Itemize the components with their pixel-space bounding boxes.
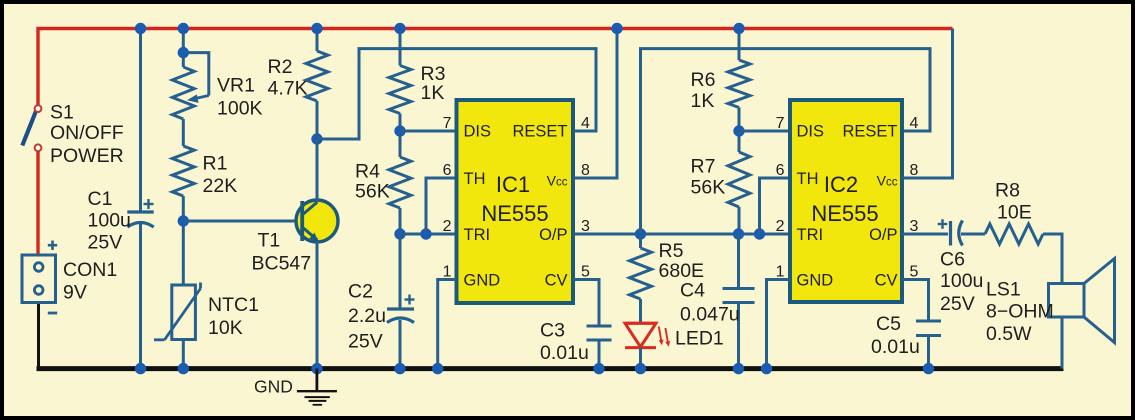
label IC2 pin OP: [869, 226, 897, 244]
svg-text:25V: 25V: [940, 293, 975, 315]
svg-text:R1: R1: [203, 153, 228, 175]
label IC1 pin CV: [545, 272, 568, 290]
resistor R7: [728, 152, 750, 207]
wire R7 bottom: [738, 207, 741, 234]
svg-text:IC2: IC2: [824, 172, 858, 197]
svg-text:8: 8: [581, 162, 590, 179]
svg-text:1: 1: [776, 264, 785, 281]
svg-text:9V: 9V: [63, 282, 87, 304]
label C4: [680, 280, 740, 326]
capacitor C5: [916, 321, 941, 336]
svg-text:6: 6: [443, 162, 452, 179]
junction VR1 wiper: [178, 47, 189, 58]
pin number 4 IC1: [581, 115, 590, 132]
resistor R2: [306, 51, 328, 101]
junction TRI1 node: [394, 228, 405, 239]
svg-text:7: 7: [443, 115, 452, 132]
op-amp U1 IC1 NE555 body: [457, 100, 574, 303]
svg-text:1K: 1K: [691, 90, 715, 112]
pin number 2 IC2: [776, 218, 785, 235]
junction DIS1 node: [394, 125, 405, 136]
switch S1: [22, 105, 41, 151]
wire C4 top: [737, 234, 740, 289]
svg-text:0.01u: 0.01u: [540, 342, 589, 364]
svg-text:RESET: RESET: [842, 123, 897, 141]
svg-text:BC547: BC547: [252, 253, 312, 275]
svg-text:R8: R8: [995, 180, 1020, 202]
wire CV1: [573, 280, 599, 327]
svg-text:T1: T1: [258, 230, 281, 252]
CON1 minus mark: [48, 312, 57, 315]
svg-text:NTC1: NTC1: [208, 294, 259, 316]
svg-text:1: 1: [443, 264, 452, 281]
svg-text:R2: R2: [268, 56, 293, 78]
pin number 7 IC2: [776, 115, 785, 132]
wire R3-R4: [399, 114, 402, 158]
label IC2 pin TH: [797, 170, 819, 188]
label IC2 pin CV: [875, 272, 898, 290]
svg-text:8−OHM: 8−OHM: [986, 301, 1054, 323]
wire VR1-R1: [182, 119, 185, 146]
pin number 8 IC1: [581, 162, 590, 179]
wire NTC1 bottom: [182, 340, 185, 369]
label R3: [421, 63, 446, 104]
svg-text:5: 5: [910, 264, 919, 281]
svg-text:25V: 25V: [348, 331, 383, 353]
label IC1 pin TRI: [464, 226, 491, 244]
svg-text:C1: C1: [88, 188, 113, 210]
svg-text:C4: C4: [680, 280, 705, 302]
label IC1 pin RESET: [512, 123, 567, 141]
wire speaker-ground: [1061, 317, 1064, 369]
label C1: [88, 188, 131, 254]
wire GND1 pin: [438, 280, 456, 369]
label R8: [995, 180, 1032, 224]
svg-text:NE555: NE555: [811, 201, 878, 226]
svg-text:3: 3: [581, 218, 590, 235]
junction GND1 ground: [432, 363, 443, 374]
wire LED1 bottom: [639, 348, 642, 369]
capacitor C2: [387, 295, 415, 323]
label IC1 pin GND: [464, 272, 501, 290]
svg-text:56K: 56K: [355, 181, 390, 203]
svg-text:0.01u: 0.01u: [871, 336, 920, 358]
svg-text:100u: 100u: [940, 270, 983, 292]
ground symbol: [297, 369, 337, 405]
label IC1 name: [481, 172, 548, 226]
wire GND2 pin: [767, 280, 791, 369]
label IC2 pin DIS: [797, 123, 825, 141]
svg-text:ON/OFF: ON/OFF: [50, 122, 124, 144]
junction VR1 rail: [178, 23, 189, 34]
label T1: [252, 230, 312, 275]
svg-text:1K: 1K: [421, 82, 445, 104]
wire RESET2 link: [641, 49, 931, 234]
label R1: [203, 153, 238, 198]
svg-text:CV: CV: [875, 272, 898, 290]
wire R8-speaker: [1043, 234, 1062, 284]
pin number 1 IC1: [443, 264, 452, 281]
svg-text:5: 5: [581, 264, 590, 281]
svg-text:TH: TH: [464, 170, 486, 188]
wire C4 bottom: [737, 303, 740, 369]
wire R6-R7: [738, 108, 741, 153]
label IC2 pin RESET: [842, 123, 897, 141]
svg-text:R4: R4: [355, 161, 380, 183]
svg-text:25V: 25V: [88, 232, 123, 254]
capacitor C6: [938, 219, 963, 245]
thermistor NTC1: [154, 283, 201, 340]
svg-text:IC1: IC1: [496, 172, 530, 197]
wire TRI1: [400, 233, 456, 236]
svg-text:C6: C6: [940, 249, 965, 271]
wire OP1 to TRI2: [573, 233, 790, 236]
wire Vcc2: [902, 29, 953, 179]
junction emitter ground: [311, 363, 322, 374]
wire DIS1: [400, 130, 456, 133]
junction collector node: [311, 133, 322, 144]
pin number 2 IC1: [443, 218, 452, 235]
wire battery positive (red): [36, 151, 39, 256]
capacitor C4: [723, 289, 755, 303]
junction C3 ground: [593, 363, 604, 374]
svg-text:VR1: VR1: [217, 75, 255, 97]
label C5: [871, 313, 920, 358]
label R5: [659, 240, 705, 282]
svg-text:S1: S1: [50, 102, 74, 124]
label IC1 pin TH: [464, 170, 486, 188]
svg-text:LS1: LS1: [986, 279, 1021, 301]
wire R6 top: [738, 29, 741, 61]
label C3: [540, 320, 589, 365]
pin number 1 IC2: [776, 264, 785, 281]
resistor R4: [389, 157, 411, 208]
junction R3 rail: [394, 23, 405, 34]
label NTC1: [208, 294, 259, 339]
junction GND2 ground: [761, 363, 772, 374]
svg-text:2.2u: 2.2u: [348, 305, 386, 327]
pin number 3 IC2: [910, 218, 919, 235]
junction C4 node: [733, 228, 744, 239]
svg-text:O/P: O/P: [539, 226, 567, 244]
junction DIS2 node: [733, 125, 744, 136]
svg-text:TRI: TRI: [464, 226, 491, 244]
svg-text:4: 4: [910, 115, 919, 132]
label C6: [940, 249, 983, 316]
wire RESET1 link: [317, 49, 596, 139]
wire C2 bottom: [399, 320, 402, 369]
svg-text:LED1: LED1: [675, 328, 724, 350]
wire VR1 top: [182, 29, 185, 68]
svg-text:3: 3: [910, 218, 919, 235]
wire C2 top: [399, 234, 402, 309]
potentiometer VR1: [172, 53, 209, 119]
wire C6-R8: [961, 233, 985, 236]
wire C5 bottom: [927, 336, 930, 369]
junction C1 bottom: [135, 363, 146, 374]
speaker LS1: [1049, 259, 1115, 343]
wire emitter: [316, 241, 319, 369]
label IC2 pin Vcc: [877, 172, 898, 188]
wire collector: [316, 139, 319, 201]
wire DIS2: [739, 130, 790, 133]
svg-text:2: 2: [443, 218, 452, 235]
wire R4-TRI node: [399, 208, 402, 234]
svg-text:CON1: CON1: [63, 259, 117, 281]
resistor R5: [630, 234, 652, 323]
label IC1 pin DIS: [464, 123, 492, 141]
svg-text:2: 2: [776, 218, 785, 235]
svg-text:100u: 100u: [88, 210, 131, 232]
label IC2 pin GND: [797, 272, 834, 290]
label LS1: [986, 279, 1054, 346]
connector CON1: [22, 255, 56, 303]
wire Vcc1: [573, 29, 617, 179]
wire R2-collector node: [316, 101, 319, 139]
junction C2 ground: [394, 363, 405, 374]
svg-text:RESET: RESET: [512, 123, 567, 141]
wire base: [183, 220, 301, 223]
transistor T1: [296, 200, 338, 242]
svg-text:R7: R7: [691, 156, 716, 178]
svg-text:R5: R5: [659, 240, 684, 262]
wire OP2: [902, 233, 948, 236]
svg-text:0.5W: 0.5W: [986, 323, 1032, 345]
label GND: [254, 377, 293, 397]
svg-text:GND: GND: [797, 272, 834, 290]
svg-text:6: 6: [776, 162, 785, 179]
label C2: [348, 281, 386, 353]
junction C4 ground: [733, 363, 744, 374]
svg-text:7: 7: [776, 115, 785, 132]
svg-text:10E: 10E: [997, 202, 1032, 224]
wire TH1 bracket: [426, 178, 456, 234]
svg-text:TH: TH: [797, 170, 819, 188]
label R2: [268, 56, 308, 100]
label CON1: [63, 259, 117, 304]
pin number 3 IC1: [581, 218, 590, 235]
label R7: [691, 156, 726, 199]
wire R2 top: [316, 29, 319, 52]
resistor R1: [172, 146, 194, 196]
CON1 plus mark: [48, 241, 57, 251]
label R4: [355, 161, 390, 203]
junction base node: [178, 215, 189, 226]
resistor R6: [728, 60, 750, 108]
wire CV2: [902, 280, 929, 322]
label IC1 pin OP: [539, 226, 567, 244]
svg-text:CV: CV: [545, 272, 568, 290]
wire C3 bottom: [598, 340, 601, 369]
svg-text:TRI: TRI: [797, 226, 824, 244]
resistor R8: [985, 224, 1043, 244]
junction R6 rail: [733, 23, 744, 34]
svg-text:GND: GND: [254, 377, 293, 397]
svg-text:0.047u: 0.047u: [680, 304, 740, 326]
svg-text:NE555: NE555: [481, 201, 548, 226]
LED LED1: [625, 323, 670, 347]
svg-text:100K: 100K: [217, 98, 263, 120]
label LED1: [675, 328, 724, 350]
svg-text:POWER: POWER: [50, 145, 124, 167]
wire R1-NTC1: [182, 196, 185, 285]
svg-text:8: 8: [910, 162, 919, 179]
label VR1: [217, 75, 263, 120]
pin number 6 IC1: [443, 162, 452, 179]
pin number 8 IC2: [910, 162, 919, 179]
V+ rail wire (red): [38, 29, 953, 106]
svg-text:4.7K: 4.7K: [268, 78, 308, 100]
svg-text:10K: 10K: [208, 317, 243, 339]
svg-text:C2: C2: [348, 281, 373, 303]
svg-text:56K: 56K: [691, 177, 726, 199]
junction TH1 node: [420, 228, 431, 239]
capacitor C3: [587, 326, 612, 340]
junction R5 node: [635, 228, 646, 239]
svg-text:22K: 22K: [203, 175, 238, 197]
wire C1 bottom: [139, 224, 142, 369]
wire CON1 negative: [37, 301, 40, 369]
pin number 7 IC1: [443, 115, 452, 132]
label IC2 pin TRI: [797, 226, 824, 244]
wire R3 top: [399, 29, 402, 66]
svg-text:R6: R6: [691, 69, 716, 91]
svg-text:O/P: O/P: [869, 226, 897, 244]
label S1: [50, 102, 124, 168]
svg-text:DIS: DIS: [464, 123, 492, 141]
pin number 4 IC2: [910, 115, 919, 132]
junction NTC1 ground: [178, 363, 189, 374]
resistor R3: [389, 66, 411, 114]
svg-text:GND: GND: [464, 272, 501, 290]
pin number 5 IC2: [910, 264, 919, 281]
junction C1 top: [135, 23, 146, 34]
svg-text:DIS: DIS: [797, 123, 825, 141]
junction LED1 ground: [635, 363, 646, 374]
junction TH2 node: [754, 228, 765, 239]
op-amp U2 IC2 NE555 body: [790, 100, 902, 302]
pin number 6 IC2: [776, 162, 785, 179]
pin number 5 IC1: [581, 264, 590, 281]
svg-text:4: 4: [581, 115, 590, 132]
junction R2 rail: [311, 23, 322, 34]
junction Vcc1 rail: [611, 23, 622, 34]
wire TH2 bracket: [760, 178, 791, 234]
svg-text:C5: C5: [876, 313, 901, 335]
wire C1 top: [139, 29, 142, 213]
capacitor C1: [127, 199, 153, 227]
junction C5 ground: [923, 363, 934, 374]
label IC2 name: [811, 172, 878, 226]
label R6: [691, 69, 716, 112]
svg-text:C3: C3: [540, 320, 565, 342]
label IC1 pin Vcc: [547, 172, 568, 188]
ground rail wire: [37, 366, 1064, 371]
